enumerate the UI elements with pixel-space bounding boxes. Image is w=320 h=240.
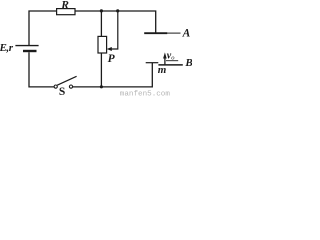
switch S left contact xyxy=(54,85,57,88)
wire: top-left vertical + top wire to R xyxy=(29,11,57,45)
velocity arrowhead v0 xyxy=(163,52,167,58)
wire: P branch from top node down to box xyxy=(100,11,102,36)
svg-text:B: B xyxy=(184,57,192,69)
plate B (bottom plate) xyxy=(158,64,182,66)
underline of v0 label xyxy=(166,60,178,62)
svg-text:P: P xyxy=(108,53,116,65)
svg-text:S: S xyxy=(59,86,65,97)
wire: top wire from R to right corner, drop to plate A xyxy=(75,11,156,33)
svg-text:R: R xyxy=(60,0,69,12)
battery E,r long plate xyxy=(15,45,38,47)
wire: bottom wire from switch to riser, up to plate B terminal xyxy=(73,63,153,87)
junction: node bottom wire at P branch xyxy=(100,85,103,88)
switch S arm xyxy=(57,76,76,85)
svg-text:manfen5.com: manfen5.com xyxy=(120,90,171,97)
svg-text:E,r: E,r xyxy=(0,42,14,54)
wiper arrow of P xyxy=(111,11,118,49)
switch S right contact xyxy=(69,85,72,88)
battery E,r short thick plate xyxy=(23,50,37,52)
potentiometer P body xyxy=(98,36,107,53)
svg-text:A: A xyxy=(182,28,191,40)
junction: node 1 top wire xyxy=(100,9,103,12)
plate A (top plate) xyxy=(144,32,167,34)
plate B terminal bar xyxy=(146,62,159,64)
wire: battery bottom down and bottom wire to switch xyxy=(29,52,54,87)
wiper arrowhead of P xyxy=(107,47,112,51)
wire: P bottom to bottom wire xyxy=(100,53,102,87)
junction: node 2 top wire xyxy=(116,9,119,12)
svg-text:m: m xyxy=(158,64,167,76)
wire: plate A lead to label xyxy=(167,32,181,34)
resistor R xyxy=(57,9,75,15)
velocity arrow v0 shaft xyxy=(164,58,166,65)
